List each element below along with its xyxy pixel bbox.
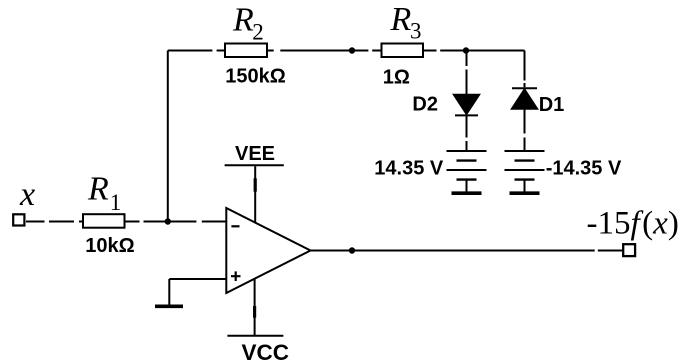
svg-text:1Ω: 1Ω xyxy=(383,66,410,88)
svg-text:R: R xyxy=(390,1,412,38)
svg-text:D1: D1 xyxy=(539,94,565,116)
svg-text:VCC: VCC xyxy=(242,340,290,364)
svg-text:-14.35 V: -14.35 V xyxy=(546,158,622,180)
svg-text:2: 2 xyxy=(252,20,263,45)
svg-text:D2: D2 xyxy=(412,94,438,116)
svg-text:3: 3 xyxy=(410,18,422,43)
svg-text:14.35 V: 14.35 V xyxy=(374,158,444,180)
svg-text:150kΩ: 150kΩ xyxy=(225,65,286,87)
svg-text:R: R xyxy=(232,1,254,38)
svg-text:R: R xyxy=(87,171,109,208)
svg-text:10kΩ: 10kΩ xyxy=(85,235,134,257)
svg-text:1: 1 xyxy=(110,190,122,215)
svg-text:x: x xyxy=(19,176,35,213)
svg-text:-15f(x): -15f(x) xyxy=(587,206,679,242)
svg-text:VEE: VEE xyxy=(235,143,275,165)
